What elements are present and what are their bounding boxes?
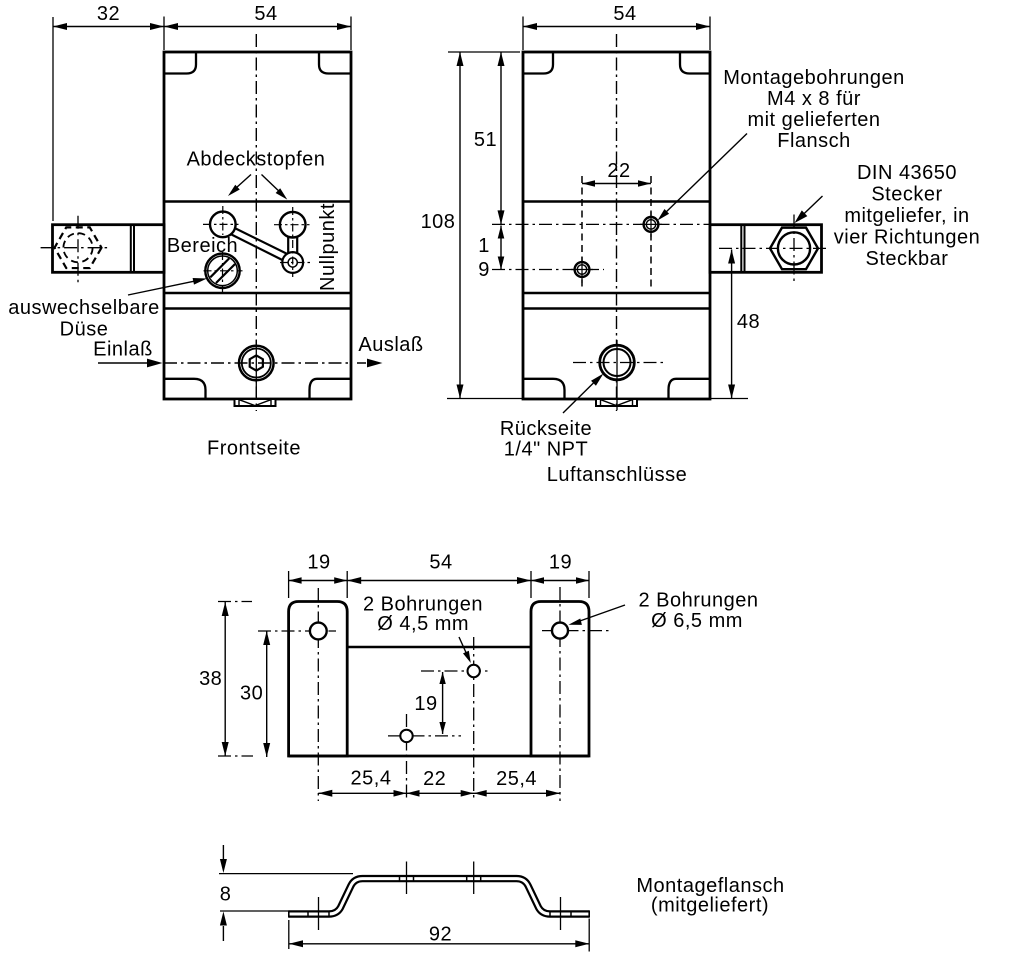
- svg-text:25,4: 25,4: [351, 767, 392, 789]
- svg-text:Ø 4,5 mm: Ø 4,5 mm: [377, 613, 469, 635]
- svg-text:mitgeliefer, in: mitgeliefer, in: [844, 205, 969, 227]
- svg-text:19: 19: [307, 551, 330, 573]
- svg-text:30: 30: [240, 682, 263, 704]
- svg-text:38: 38: [199, 668, 222, 690]
- svg-text:1: 1: [478, 235, 490, 257]
- svg-text:48: 48: [737, 311, 760, 333]
- svg-text:22: 22: [423, 768, 446, 790]
- svg-text:mit gelieferten: mit gelieferten: [747, 109, 880, 131]
- svg-text:Einlaß: Einlaß: [93, 338, 153, 360]
- svg-text:Luftanschlüsse: Luftanschlüsse: [547, 464, 687, 486]
- svg-text:19: 19: [549, 551, 572, 573]
- svg-text:22: 22: [607, 160, 630, 182]
- svg-text:Frontseite: Frontseite: [207, 437, 301, 459]
- svg-text:auswechselbare: auswechselbare: [8, 297, 160, 319]
- svg-text:9: 9: [478, 259, 490, 281]
- svg-text:Bereich: Bereich: [167, 235, 238, 257]
- svg-text:Stecker: Stecker: [871, 183, 942, 205]
- svg-text:2 Bohrungen: 2 Bohrungen: [638, 589, 758, 611]
- svg-text:Ø 6,5 mm: Ø 6,5 mm: [651, 610, 743, 632]
- svg-text:Düse: Düse: [60, 318, 109, 340]
- svg-text:54: 54: [613, 3, 636, 25]
- svg-text:DIN 43650: DIN 43650: [857, 162, 957, 184]
- svg-text:Montagebohrungen: Montagebohrungen: [723, 67, 904, 89]
- svg-text:1/4" NPT: 1/4" NPT: [504, 438, 588, 460]
- svg-text:25,4: 25,4: [496, 768, 537, 790]
- svg-text:Abdeckstopfen: Abdeckstopfen: [187, 148, 326, 170]
- svg-text:Auslaß: Auslaß: [358, 334, 423, 356]
- svg-text:Steckbar: Steckbar: [866, 248, 949, 270]
- svg-text:92: 92: [429, 923, 452, 945]
- svg-text:Nullpunkt: Nullpunkt: [317, 203, 339, 291]
- svg-text:51: 51: [474, 129, 497, 151]
- svg-text:8: 8: [220, 883, 232, 905]
- svg-text:(mitgeliefert): (mitgeliefert): [651, 894, 769, 916]
- svg-text:54: 54: [254, 3, 277, 25]
- svg-text:19: 19: [414, 693, 437, 715]
- svg-text:32: 32: [97, 3, 120, 25]
- svg-text:108: 108: [421, 211, 456, 233]
- svg-text:Rückseite: Rückseite: [500, 418, 592, 440]
- svg-text:M4 x 8 für: M4 x 8 für: [767, 88, 861, 110]
- svg-text:54: 54: [429, 551, 452, 573]
- svg-text:vier Richtungen: vier Richtungen: [834, 226, 980, 248]
- svg-text:Flansch: Flansch: [777, 130, 851, 152]
